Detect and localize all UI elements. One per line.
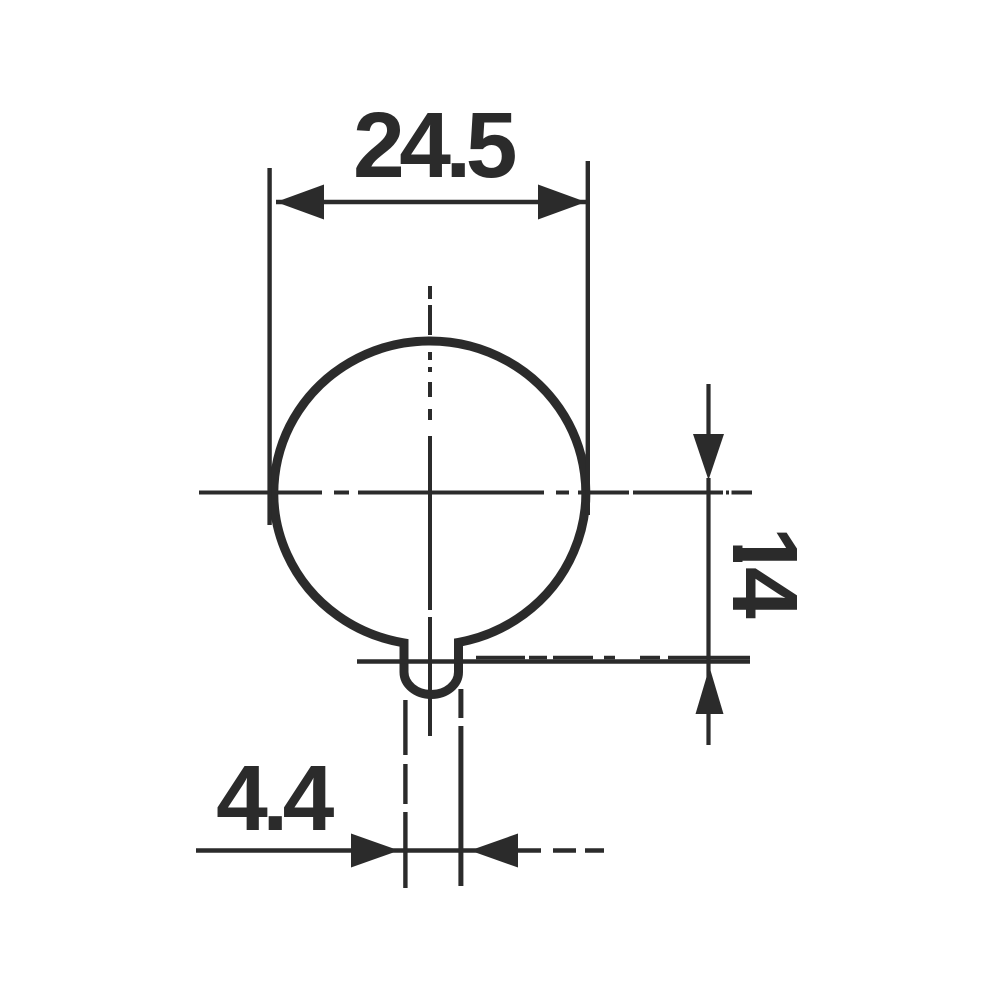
svg-text:14: 14 xyxy=(713,526,817,619)
svg-text:4.4: 4.4 xyxy=(216,746,335,850)
svg-text:24.5: 24.5 xyxy=(353,93,516,197)
